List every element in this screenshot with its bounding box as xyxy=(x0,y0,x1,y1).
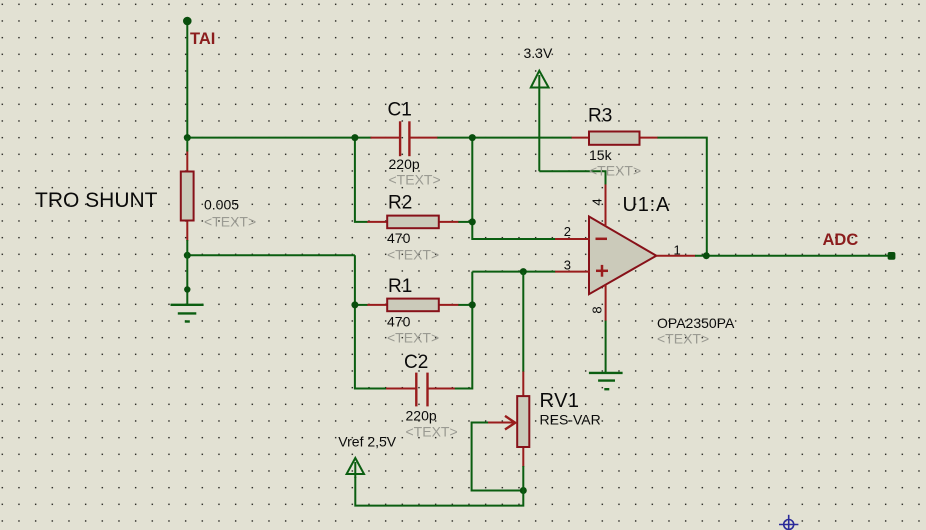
svg-text:C2: C2 xyxy=(404,352,428,373)
svg-text:220p: 220p xyxy=(389,156,420,172)
svg-text:2: 2 xyxy=(564,224,571,239)
svg-text:<TEXT>: <TEXT> xyxy=(657,331,709,347)
wire C1 right to R3 left xyxy=(437,137,572,139)
junction node C1-right xyxy=(469,134,476,141)
wire pin8 to ground xyxy=(605,321,607,374)
svg-text:RV1: RV1 xyxy=(540,390,580,412)
node ground pin marker xyxy=(184,286,190,292)
wire shunt bottom horizontal xyxy=(187,254,355,256)
pin 8 stub xyxy=(605,285,607,321)
wire wiper loop xyxy=(472,423,524,491)
resistor R3 xyxy=(572,132,658,145)
svg-text:RES-VAR: RES-VAR xyxy=(540,411,601,427)
wire shunt-bottom branch down to C2 left xyxy=(355,255,387,388)
svg-text:<TEXT>: <TEXT> xyxy=(589,163,641,179)
pin 3 stub xyxy=(555,271,590,273)
wire main top net (shunt top to C1 left) xyxy=(186,137,371,139)
origin marker xyxy=(779,515,798,530)
svg-text:TAI: TAI xyxy=(190,30,215,48)
wire output net xyxy=(695,255,889,257)
svg-text:470: 470 xyxy=(387,314,411,330)
capacitor C1 xyxy=(371,121,438,156)
resistor TRO SHUNT xyxy=(181,138,194,241)
svg-text:4: 4 xyxy=(590,198,605,205)
power Vref symbol xyxy=(347,458,364,478)
terminal ADC xyxy=(888,252,896,260)
power 3.3V symbol xyxy=(531,71,549,172)
op-amp U1:A xyxy=(589,217,656,295)
wire pin3 branch down to R1 right and C2 right xyxy=(454,272,472,389)
junction node shunt-top xyxy=(184,134,191,141)
svg-text:3.3V: 3.3V xyxy=(524,45,553,61)
wire RV1 bottom to Vref xyxy=(355,466,523,506)
pin 4 stub xyxy=(605,184,607,226)
svg-text:470: 470 xyxy=(387,230,411,246)
svg-text:<TEXT>: <TEXT> xyxy=(387,246,439,262)
junction node RV1-bottom xyxy=(520,487,527,494)
svg-text:R3: R3 xyxy=(588,106,612,127)
wire ground stem below shunt xyxy=(186,240,188,305)
svg-text:8: 8 xyxy=(590,306,605,313)
svg-text:OPA2350PA: OPA2350PA xyxy=(657,315,735,331)
svg-text:ADC: ADC xyxy=(823,231,859,249)
wire RV1 top from pin3 node xyxy=(522,272,524,372)
svg-text:TRO SHUNT: TRO SHUNT xyxy=(35,189,158,212)
terminal TAI xyxy=(183,17,192,26)
svg-text:Vref 2,5V: Vref 2,5V xyxy=(338,434,397,450)
resistor R1 xyxy=(367,299,458,312)
pin 2 stub xyxy=(555,238,590,240)
svg-text:<TEXT>: <TEXT> xyxy=(389,171,441,187)
svg-text:3: 3 xyxy=(564,258,571,273)
wire TAI vertical xyxy=(186,21,188,138)
junction node R2-right xyxy=(469,218,476,225)
svg-text:<TEXT>: <TEXT> xyxy=(204,214,256,230)
junction node C1-left xyxy=(351,134,358,141)
ground G2 xyxy=(589,373,623,389)
svg-text:<TEXT>: <TEXT> xyxy=(406,424,458,440)
svg-text:C1: C1 xyxy=(388,99,412,120)
capacitor C2 xyxy=(386,373,455,407)
wire R1 left stub xyxy=(355,304,368,306)
wire 3.3V to pin4 xyxy=(539,171,605,185)
wire branch down to R2 left xyxy=(355,138,368,222)
wire R3 right feedback down to output xyxy=(658,138,707,256)
svg-text:R1: R1 xyxy=(388,276,412,297)
ground G1 xyxy=(171,305,204,322)
svg-text:0.005: 0.005 xyxy=(204,197,239,213)
wire R1 right stub xyxy=(458,304,472,306)
wire pin3 net horizontal xyxy=(472,271,555,273)
junction node R1-left xyxy=(351,301,358,308)
svg-text:U1:A: U1:A xyxy=(623,194,671,216)
svg-text:R2: R2 xyxy=(388,193,412,214)
junction node RV1-top xyxy=(520,268,527,275)
junction node R1-right xyxy=(469,301,476,308)
junction node shunt-bottom xyxy=(184,252,191,259)
pin 1 stub output xyxy=(656,255,695,257)
resistor R2 xyxy=(367,216,458,229)
svg-text:220p: 220p xyxy=(406,408,437,424)
svg-text:1: 1 xyxy=(674,242,681,257)
potentiometer RV1 xyxy=(487,372,529,467)
junction node output xyxy=(703,252,710,259)
wire branch down to R2 right and op-amp pin2 xyxy=(472,138,555,239)
svg-text:<TEXT>: <TEXT> xyxy=(387,330,439,346)
svg-text:15k: 15k xyxy=(589,147,613,163)
wire R2 right stub xyxy=(458,221,472,223)
